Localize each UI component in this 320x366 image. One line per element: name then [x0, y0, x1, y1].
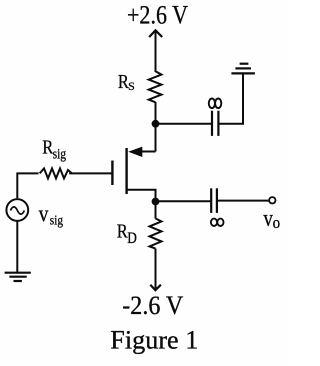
svg-text:sig: sig — [53, 147, 67, 163]
svg-text:S: S — [128, 79, 135, 93]
svg-text:v: v — [39, 201, 49, 227]
svg-text:v: v — [263, 206, 273, 232]
svg-text:o: o — [273, 213, 281, 232]
svg-text:-2.6 V: -2.6 V — [122, 291, 183, 320]
svg-text:+2.6 V: +2.6 V — [127, 0, 188, 29]
svg-text:sig: sig — [50, 213, 63, 228]
svg-text:Figure 1: Figure 1 — [110, 326, 198, 355]
svg-text:D: D — [127, 230, 137, 247]
